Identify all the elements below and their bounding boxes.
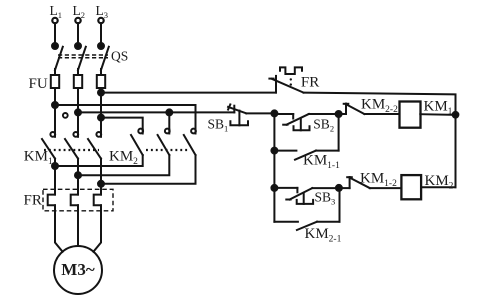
contact KM2-2 (NC interlock) [339,104,400,114]
node junction KM2 c2 drop [166,109,172,115]
contactor KM1 contact 1 [42,130,55,159]
wire QS to FU pole3 [100,69,102,75]
switch QS blade 1 [55,47,63,70]
wire FU2 down to KM1 contact 2 [77,88,79,130]
wire KM2 c2 bottom crossover to phase B [78,155,169,175]
contactor KM1 contact 3 [88,130,101,159]
wire heater2 to motor [77,205,79,246]
coil KM2 [401,175,421,199]
wire KM1 c2 down to merge node B [77,159,79,195]
node L3 terminal [98,18,103,23]
contactor KM1 contact 2 [65,130,78,159]
wire branch vertical [273,113,275,221]
wire heater1 to motor [55,205,63,252]
svg-text:FR: FR [24,193,42,209]
wire L2 to QS [77,23,79,46]
switch QS blade 3 [101,47,109,70]
svg-text:FU: FU [29,76,48,92]
node L2 terminal [75,18,80,23]
wire FU1 down to KM1 contact 1 [54,88,56,130]
pushbutton SB1 (NC stop) [228,104,248,125]
switch QS pole 1 dot [52,43,58,49]
wire QS to FU pole2 [77,69,79,75]
wire KM1 c1 down to merge node A [54,159,56,195]
contact KM1-2 (NC interlock) [339,177,402,188]
wire FU3 down to KM1 contact 3 [100,88,102,130]
wire L2 tap to SB1 [78,111,234,113]
contactor KM2 contact 3 [184,129,196,155]
node tap L3 to control (FR line) [98,90,104,96]
motor M3~ circle [54,246,102,294]
node right bus KM1 coil [453,112,459,118]
wire down to KM1-1 [338,114,340,151]
wire heater3 to motor [93,205,101,252]
node SB2 out / KM1-1 up [336,111,342,117]
svg-text:FR: FR [301,75,319,91]
contactor KM1 linkage dotted [44,149,99,151]
wire L1 tap to KM2 c3 [55,105,196,130]
svg-text:QS: QS [111,49,128,64]
wire L3 to QS [100,23,102,46]
node merge phase A [52,163,58,169]
wire control feed to FR contact [101,92,276,94]
wire KM1 coil to right bus [420,113,455,116]
wire L3 tap to KM2 c1 [101,118,143,130]
switch QS linkage dashed lines [58,54,108,56]
wire SB1 out to branch node [246,112,274,114]
node tap L1 to KM2 contact c3 [52,102,58,108]
fuse FU pole 3 [97,75,105,88]
thermal relay FR box dashed [43,189,113,211]
switch QS pole 2 dot [75,43,81,49]
contact KM2-1 (NO self-hold rev) [274,188,339,230]
node tap L3 to KM2 contact c1 [98,115,104,121]
fuse FU pole 2 [74,75,82,88]
thermal relay FR heater 2 [71,195,78,206]
node merge phase B [75,172,81,178]
thermal relay FR heater 1 [48,195,55,206]
pushbutton SB2 (NO start fwd) [274,114,338,130]
contact KM1-1 (NO self-hold) [271,148,338,160]
node SB3 out [336,185,342,191]
node tap L2 to SB1 rail [75,109,81,115]
wire KM1 c3 down to merge node C [100,159,102,195]
node SB3 branch [271,185,277,191]
contact FR (NC overload) [269,67,303,92]
thermal relay FR heater 3 [94,195,101,206]
contactor KM2 contact 1 [131,129,143,155]
coil KM1 [400,102,421,128]
wire KM2 c3 bottom crossover to phase C [101,155,196,184]
wire L1 to QS [54,23,56,46]
svg-text:M3~: M3~ [61,260,95,279]
node branch top [271,110,277,116]
wire KM2 coil to right bus corner [421,186,455,188]
contactor KM2 contact 2 [158,129,170,155]
wire QS to FU pole1 [54,69,56,75]
node L1 terminal [52,18,57,23]
fuse FU pole 1 [51,75,59,88]
switch QS blade 2 [78,47,86,70]
wire KM2 c2 drop [168,112,170,129]
wire FR out to right bus [304,93,456,188]
node stray ring [63,113,68,118]
contactor KM2 linkage dotted [146,149,189,151]
switch QS pole 3 dot [98,43,104,49]
node merge phase C [98,181,104,187]
wire KM2 c1 bottom crossover to phase A [55,155,143,166]
pushbutton SB3 (NO start rev) [274,188,339,204]
